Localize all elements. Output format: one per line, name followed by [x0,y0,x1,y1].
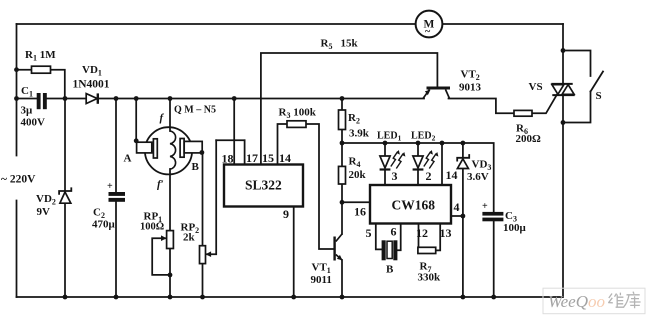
wire R2 top [341,99,343,111]
svg-text:VS: VS [529,81,543,93]
svg-text:400V: 400V [21,117,46,129]
svg-text:470μ: 470μ [92,219,116,231]
junction dot (442,143) [440,141,445,146]
wire top horizontal right of motor [442,23,563,25]
resistor R3 [287,121,306,128]
sensor electrode plate left [153,139,157,158]
wire sensor heater f drop and coil lead-in [169,99,171,132]
wire R1 loop [17,69,32,71]
svg-text:3.6V: 3.6V [467,171,489,183]
zener diode VD2 [59,187,71,203]
junction dot (293.7,297) [291,295,296,300]
svg-text:18: 18 [222,152,234,166]
svg-text:12: 12 [416,226,428,240]
wire R4 bottom to pin16 node [341,184,343,202]
svg-text:5: 5 [366,226,372,240]
sensor tab A [137,142,152,153]
svg-text:17: 17 [246,151,258,165]
junction dot (493.7,297) [491,295,496,300]
capacitor C3 polarized [482,212,503,221]
junction dot (116,297) [114,295,119,300]
svg-text:100μ: 100μ [503,222,527,234]
IC U1 SL322 [224,165,303,207]
junction dot (65,98.5) [63,96,68,101]
svg-text:15k: 15k [341,38,359,50]
wire LED rail [342,143,494,212]
svg-text:S: S [596,90,602,102]
junction dot (342,98.5) [340,96,345,101]
svg-text:+: + [482,201,488,212]
svg-text:6: 6 [391,225,397,239]
svg-text:~: ~ [425,27,431,38]
junction dot (462.9,143) [461,141,466,146]
wire rail VD1 to VT2 collector [99,98,424,100]
junction dot (202.5,297) [200,295,205,300]
svg-text:SL322: SL322 [245,178,282,193]
wire SL322 pin 9 to bottom rail [293,207,295,298]
wire RP1 to bottom rail [169,249,171,298]
zener diode VD3 [457,154,469,168]
svg-text:2k: 2k [183,232,196,244]
junction dot (342,143) [340,141,345,146]
junction dot (385,143) [383,141,388,146]
svg-text:A: A [124,153,132,165]
transistor VT2 [423,87,450,99]
junction dot (563,122.5) [561,120,566,125]
wire CW168 pin 5 to resonator [376,224,382,250]
wire VS lower node down to bottom rail [562,123,564,298]
junction dot (116,98.5) [114,96,119,101]
thyristor VS (triac) [551,84,574,95]
svg-text:+: + [107,181,113,192]
svg-text:15: 15 [262,151,274,165]
gas sensor QM-N5 body [145,127,192,174]
svg-text:20k: 20k [349,169,367,181]
wire CW168 pin 12 to R7 [418,224,420,248]
wire rail to SL322 pin 18 [233,99,235,165]
diode VD1 [86,93,98,103]
sensor electrode plate right [180,139,184,158]
wire switch branch top [563,51,591,77]
wire RP2 wiper up to pin-17/18 node [205,140,216,254]
svg-text:100Ω: 100Ω [140,222,164,233]
svg-text:3: 3 [392,169,398,183]
RP2 wiper arrow [206,251,212,257]
wire sensor electrode A drop [135,99,137,143]
junction dot (136.2,140.8) [134,138,139,143]
wire CW168 pin 6 to resonator [398,224,401,251]
resistor R7 [418,247,436,253]
junction dot (170,297) [168,295,173,300]
svg-text:9: 9 [283,207,289,221]
junction dot (136.2,98.5) [134,96,139,101]
svg-text:f′: f′ [157,179,164,191]
svg-text:4: 4 [454,200,460,214]
junction dot (16.5,98.5) [14,96,19,101]
wire R5 line: SL322 pin 15 up, across, down to VT2 base [261,53,438,165]
wire VT1 collector vertical [341,202,343,234]
wire electrode B down to RP2 [202,153,204,246]
wire RP1 wiper [152,238,170,275]
junction dot (201.9,152.5) [200,150,205,155]
svg-text:R3 100k: R3 100k [279,107,317,121]
junction dot (462.9,216) [461,214,466,219]
LED1 [380,156,391,170]
IC U2 CW168 [370,185,451,224]
wire CW168 pin 14 [441,143,443,185]
wire CW168 pin 16 [342,201,370,203]
switch S blade [591,72,604,92]
wire C2 branch lower [115,202,117,297]
wire sensor f-prime down to RP1 [169,169,171,231]
svg-text:B: B [192,161,200,173]
resistor R6 [514,110,532,116]
wire node shelf above SL322 [216,139,244,141]
wire R2 bottom to LED rail [341,130,343,144]
wire VD3 top [462,143,464,157]
LED2 [413,156,424,170]
wire C3 bottom [493,221,495,297]
wire CW168 pin 13 to R7 [436,224,441,251]
wire left vertical lower [16,201,18,298]
resonator B body [387,241,392,258]
wire RP2 to bottom rail [202,264,204,297]
LED2 flash arrows [424,150,439,169]
junction dot (462.9,297) [461,295,466,300]
svg-text:200Ω: 200Ω [516,133,542,145]
wire R4 top [341,143,343,166]
resistor R4 [339,166,346,184]
LED1 flash arrows [391,150,406,169]
svg-text:3.9k: 3.9k [349,128,370,140]
wire CW168 pin 4 [451,215,463,217]
svg-text:CW168: CW168 [392,198,436,213]
junction dot (170,274.9) [168,273,173,278]
junction dot (342,202.3) [340,200,345,205]
RP1 wiper arrow [161,235,167,241]
svg-text:9013: 9013 [459,82,482,94]
resistor R1 [32,66,51,73]
wire bottom rail [17,296,563,298]
svg-text:9011: 9011 [311,274,332,286]
svg-text:3μ: 3μ [21,105,34,117]
wire rail C1 to VD1 [47,98,86,100]
junction dot (563,50.5) [561,48,566,53]
junction dot (342,297) [340,295,345,300]
junction dot (16.5,69.7) [14,67,19,72]
svg-text:9V: 9V [37,206,51,218]
wire left vertical upper [16,24,18,156]
svg-text:2: 2 [426,169,432,183]
svg-text:16: 16 [354,205,366,219]
wire VD3 bottom to pin4 node and ground [462,169,464,298]
svg-text:330k: 330k [418,272,442,284]
svg-text:~ 220V: ~ 220V [1,174,36,186]
wire LED2 leads [417,143,419,156]
sensor heater coil [170,131,176,169]
junction dot (234.2,98.5) [232,96,237,101]
motor M [416,11,443,38]
wire VT1 emitter to bottom rail [341,260,343,297]
potentiometer RP1 body [167,231,174,249]
sensor tab B [184,141,202,153]
wire VD2 branch upper [64,99,66,191]
wire right vertical (mains to VS) [562,24,564,84]
svg-text:R1 1M: R1 1M [25,49,56,63]
capacitor C2 polarized [109,192,126,202]
wire SL322 pin 14 to R3 left lead [278,124,288,165]
svg-text:Q M – N5: Q M – N5 [174,105,216,116]
resonator B plates [382,240,398,260]
svg-text:WeeQoo: WeeQoo [548,292,605,311]
wire LED1 leads [384,143,386,156]
svg-text:14: 14 [279,151,291,165]
wire SL322 pin 17 [244,140,246,164]
svg-text:1N4001: 1N4001 [73,79,110,91]
wire top horizontal left of motor [17,23,416,25]
resistor R2 [339,110,346,130]
wire R3 right lead down to VT1 base [306,124,333,249]
capacitor C1 [37,93,47,109]
wire switch branch bottom [563,92,591,123]
watermark WeeQoo [543,288,645,314]
transistor VT1 [333,234,342,261]
junction dot (65,297) [63,295,68,300]
wire VS to lower node [562,96,564,123]
wire VD2 branch lower [64,203,66,297]
svg-text:B: B [386,264,394,276]
svg-text:14: 14 [446,168,458,182]
wire rail C1 left [17,98,37,100]
junction dot (418,143) [416,141,421,146]
svg-text:13: 13 [440,226,452,240]
potentiometer RP2 body [200,246,206,264]
wire VT2 emitter to R6 to VS gate [449,99,515,114]
wire C2 branch upper [115,99,117,193]
junction dot (170,98.5) [168,96,173,101]
